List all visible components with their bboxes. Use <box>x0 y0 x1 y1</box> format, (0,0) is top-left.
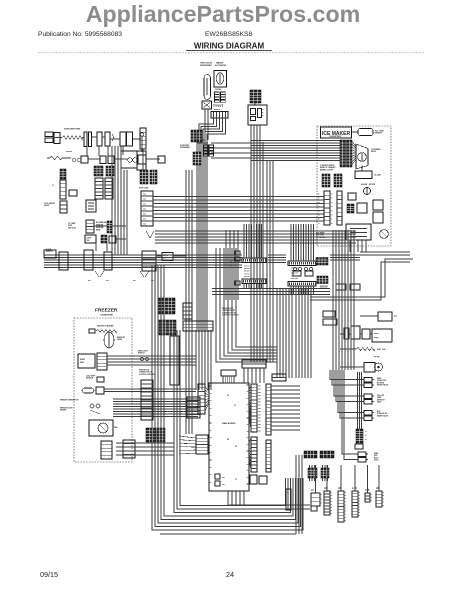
svg-text:BD WIRE: BD WIRE <box>377 382 384 384</box>
svg-text:m: m <box>383 492 385 494</box>
svg-text:WIRE: WIRE <box>374 453 378 455</box>
svg-text:mm: mm <box>258 424 261 426</box>
svg-text:m: m <box>345 492 347 494</box>
svg-text:m: m <box>331 194 333 196</box>
svg-text:m: m <box>331 210 333 212</box>
svg-text:HEATER: HEATER <box>375 132 383 135</box>
svg-text:m: m <box>359 492 361 494</box>
svg-text:EVAP: EVAP <box>80 358 86 361</box>
svg-text:m: m <box>365 435 367 437</box>
svg-text:mm: mm <box>143 214 146 216</box>
svg-text:mm: mm <box>151 280 154 282</box>
svg-text:FREEZER DOOR: FREEZER DOOR <box>60 408 74 410</box>
svg-text:m: m <box>345 511 347 513</box>
svg-text:WIRE: WIRE <box>377 397 381 399</box>
svg-text:m: m <box>359 495 361 497</box>
svg-text:mm um: mm um <box>244 271 250 273</box>
svg-text:m: m <box>331 198 333 200</box>
svg-text:mm: mm <box>258 421 261 423</box>
svg-text:J7: J7 <box>235 479 237 481</box>
svg-text:CAP: CAP <box>382 348 386 351</box>
svg-text:m: m <box>365 431 367 433</box>
svg-text:m: m <box>359 504 361 506</box>
svg-text:LIGHT: LIGHT <box>87 238 92 240</box>
svg-text:m: m <box>331 510 333 512</box>
svg-text:CONNECTOR OF: CONNECTOR OF <box>139 372 152 374</box>
svg-text:m: m <box>262 115 264 117</box>
svg-text:FAN: FAN <box>80 361 84 364</box>
svg-text:mm: mm <box>258 395 261 397</box>
svg-text:mm: mm <box>258 386 261 388</box>
svg-text:m: m <box>371 494 373 496</box>
svg-text:m: m <box>371 500 373 502</box>
svg-text:MAIN BOARD: MAIN BOARD <box>222 422 236 425</box>
svg-text:mm: mm <box>143 224 146 226</box>
svg-text:m: m <box>365 439 367 441</box>
svg-text:wvwvw: wvwvw <box>66 151 73 153</box>
svg-text:AUGER: AUGER <box>361 183 368 186</box>
svg-text:CONTROL HOUSING: CONTROL HOUSING <box>139 374 155 376</box>
svg-text:mm u mm: mm u mm <box>291 278 299 280</box>
svg-text:MOTOR: MOTOR <box>369 184 376 186</box>
svg-text:mm: mm <box>258 408 261 410</box>
svg-text:m: m <box>345 498 347 500</box>
svg-text:m: m <box>345 504 347 506</box>
svg-text:mm: mm <box>258 418 261 420</box>
svg-text:J1: J1 <box>311 489 314 492</box>
svg-text:BLOWER MM: BLOWER MM <box>96 222 107 224</box>
svg-text:mm: mm <box>222 484 225 486</box>
svg-text:TERM: TERM <box>117 339 122 341</box>
svg-text:m: m <box>359 501 361 503</box>
svg-text:m: m <box>345 501 347 503</box>
svg-text:mm: mm <box>258 402 261 404</box>
svg-text:DISP CONN: DISP CONN <box>139 188 149 190</box>
svg-text:mm: mm <box>143 219 146 221</box>
svg-text:m: m <box>318 219 320 221</box>
svg-text:m: m <box>345 508 347 510</box>
svg-text:Publication No: 5995568083: Publication No: 5995568083 <box>38 31 122 38</box>
svg-text:m: m <box>262 109 264 111</box>
svg-text:mm: mm <box>88 280 91 282</box>
svg-text:m: m <box>331 202 333 204</box>
svg-text:mm: mm <box>143 194 146 196</box>
svg-text:SENSOR: SENSOR <box>320 288 328 290</box>
svg-text:SUPPLEMENT WIRE: SUPPLEMENT WIRE <box>64 129 81 131</box>
svg-text:mm: mm <box>258 398 261 400</box>
svg-text:m: m <box>331 206 333 208</box>
svg-text:mm um: mm um <box>244 273 250 275</box>
svg-text:TYYVT: TYYVT <box>213 104 223 108</box>
svg-text:PH TR: PH TR <box>374 357 380 359</box>
svg-text:J4: J4 <box>227 438 230 441</box>
svg-text:m: m <box>331 495 333 497</box>
svg-text:mm: mm <box>258 392 261 394</box>
svg-text:m: m <box>331 501 333 503</box>
svg-text:mm: mm <box>133 280 136 282</box>
svg-text:m: m <box>345 517 347 519</box>
svg-text:m: m <box>383 505 385 507</box>
svg-text:m: m <box>321 494 323 496</box>
svg-text:m: m <box>359 509 361 511</box>
svg-text:J2: J2 <box>227 395 229 397</box>
svg-text:m: m <box>318 194 320 196</box>
svg-text:TO CABINET: TO CABINET <box>316 236 327 239</box>
svg-text:FRESHFOOD: FRESHFOOD <box>139 370 150 372</box>
svg-text:DISPENSER: DISPENSER <box>180 147 191 149</box>
svg-text:CONTROL HOUSING: CONTROL HOUSING <box>222 315 239 317</box>
svg-text:FROM PWR: FROM PWR <box>377 380 387 382</box>
svg-text:m: m <box>331 223 333 225</box>
svg-text:PTC: PTC <box>394 316 398 318</box>
svg-text:DISPENSER: DISPENSER <box>200 65 212 67</box>
svg-text:m: m <box>345 520 347 522</box>
svg-text:m: m <box>383 495 385 497</box>
svg-text:mm um: mm um <box>244 276 250 278</box>
svg-text:FAN: FAN <box>114 426 118 429</box>
svg-text:(AIR FLS): (AIR FLS) <box>68 226 76 229</box>
svg-text:mm um: mm um <box>244 268 250 270</box>
svg-text:mm: mm <box>106 280 109 282</box>
svg-text:SWITCH: SWITCH <box>46 251 53 253</box>
svg-text:J1: J1 <box>234 405 236 407</box>
svg-text:m: m <box>331 513 333 515</box>
svg-text:m: m <box>331 492 333 494</box>
svg-text:wvwvw: wvwvw <box>214 109 221 111</box>
svg-text:C12345: C12345 <box>215 88 221 91</box>
svg-text:m: m <box>359 498 361 500</box>
svg-text:J3: J3 <box>235 446 237 448</box>
svg-text:m: m <box>318 223 320 225</box>
svg-text:MWM MM: MWM MM <box>96 227 104 229</box>
svg-text:CE-LINE: CE-LINE <box>374 175 382 177</box>
svg-text:mm: mm <box>143 209 146 211</box>
svg-text:FREEZER THERMISTOR: FREEZER THERMISTOR <box>60 400 79 402</box>
svg-text:m: m <box>383 498 385 500</box>
svg-text:PER: PER <box>374 455 378 457</box>
svg-text:mm: mm <box>143 199 146 201</box>
svg-text:mm u mm: mm u mm <box>291 275 299 277</box>
svg-text:EW26BS85KS8: EW26BS85KS8 <box>205 31 252 38</box>
svg-text:m: m <box>321 498 323 500</box>
svg-text:m: m <box>345 495 347 497</box>
svg-text:DEFROST: DEFROST <box>377 399 385 401</box>
svg-text:mwm: mwm <box>374 333 379 335</box>
svg-text:mm: mm <box>222 477 225 479</box>
svg-text:m: m <box>331 498 333 500</box>
svg-text:m: m <box>262 112 264 114</box>
svg-text:m: m <box>318 215 320 217</box>
svg-text:24: 24 <box>226 570 234 579</box>
svg-text:m: m <box>359 506 361 508</box>
svg-text:mm: mm <box>258 389 261 391</box>
svg-text:mm: mm <box>258 414 261 416</box>
svg-text:ACTUATOR: ACTUATOR <box>215 64 227 67</box>
svg-text:mm u mm: mm u mm <box>291 273 299 275</box>
svg-text:m: m <box>321 503 323 505</box>
svg-text:m: m <box>359 515 361 517</box>
svg-text:m: m <box>383 502 385 504</box>
svg-text:mm: mm <box>143 204 146 206</box>
svg-text:COMPARTMENT: COMPARTMENT <box>100 314 114 317</box>
svg-text:VALVE: VALVE <box>44 204 50 207</box>
svg-text:WIRE: WIRE <box>377 378 381 380</box>
svg-text:SWITCH: SWITCH <box>138 353 145 355</box>
svg-text:A: A <box>52 183 54 187</box>
svg-text:mm um: mm um <box>244 266 250 268</box>
svg-text:PLUG: PLUG <box>374 460 379 462</box>
svg-text:BLK: BLK <box>377 411 381 413</box>
svg-text:m: m <box>359 512 361 514</box>
svg-text:YELLOW: YELLOW <box>377 395 384 397</box>
svg-text:mm: mm <box>258 430 261 432</box>
svg-text:DIM: DIM <box>87 240 91 242</box>
svg-text:09/15: 09/15 <box>40 570 58 579</box>
svg-text:mwm: mwm <box>374 337 379 339</box>
svg-text:m: m <box>331 504 333 506</box>
svg-text:WIRING DIAGRAM: WIRING DIAGRAM <box>194 42 265 51</box>
svg-text:m: m <box>287 492 289 494</box>
svg-text:MWM: MWM <box>96 230 101 232</box>
svg-text:FREEZER: FREEZER <box>95 308 118 314</box>
svg-text:m: m <box>331 215 333 217</box>
svg-text:DEFROST HEATER: DEFROST HEATER <box>97 325 114 328</box>
svg-text:m: m <box>331 219 333 221</box>
svg-text:mm: mm <box>258 411 261 413</box>
svg-text:BEHIND COVER: BEHIND COVER <box>320 169 334 171</box>
svg-text:BUILT: BUILT <box>374 457 379 459</box>
svg-text:m: m <box>371 497 373 499</box>
svg-text:m: m <box>318 198 320 200</box>
svg-text:MOLD: MOLD <box>371 151 377 153</box>
svg-text:RUN: RUN <box>377 349 381 351</box>
svg-text:m: m <box>345 514 347 516</box>
svg-text:ICE MAKER: ICE MAKER <box>322 131 350 137</box>
svg-text:SENSOR: SENSOR <box>86 378 94 380</box>
svg-text:mm: mm <box>258 427 261 429</box>
svg-text:mm: mm <box>258 405 261 407</box>
svg-text:m: m <box>331 507 333 509</box>
